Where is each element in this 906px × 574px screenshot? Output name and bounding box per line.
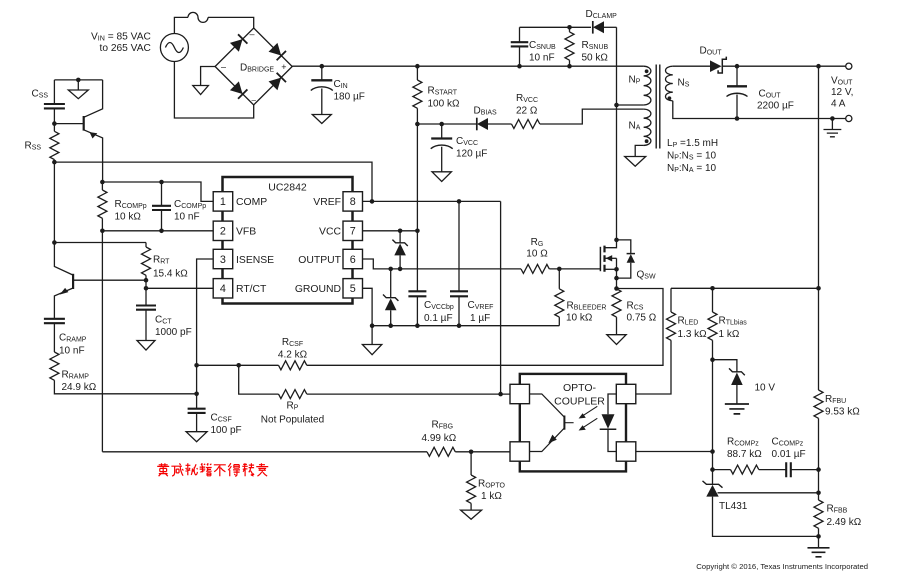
diode DBIAS (417, 123, 476, 125)
svg-text:VCC: VCC (319, 227, 341, 238)
svg-text:UC2842: UC2842 (268, 182, 307, 194)
bridge diode bottom-right (268, 73, 286, 91)
transistor Q2 (ramp NPN) (54, 243, 73, 276)
wire ISENSE vertical (197, 259, 214, 409)
resistor RSTART (416, 66, 418, 80)
body diode QSW (617, 240, 631, 254)
AC source V1 (160, 34, 188, 62)
diode DCLAMP (593, 21, 604, 34)
bridge diode top-left (230, 34, 248, 52)
node LED bus (816, 286, 821, 291)
svg-text:1000 pF: 1000 pF (155, 327, 192, 338)
wire VREF pin8 (362, 200, 500, 202)
node CVCCbp bottom (415, 323, 420, 328)
svg-text:50 kΩ: 50 kΩ (582, 53, 609, 64)
svg-text:–: – (221, 62, 226, 72)
wire RP to opto (307, 393, 510, 395)
node VCC RSTART junction (415, 229, 420, 234)
node RT/CT (144, 286, 149, 291)
wire VFB net (102, 230, 213, 232)
opto-coupler U2 box (520, 374, 626, 472)
capacitor CCT (145, 288, 147, 305)
svg-text:1: 1 (220, 196, 226, 208)
resistor RCS (612, 289, 621, 317)
resistor RSS (53, 124, 55, 132)
node zener2 bottom (388, 323, 393, 328)
wire TL431 ref (718, 492, 819, 494)
node RCOMPp top (100, 180, 105, 185)
wire ground bus (372, 325, 559, 327)
wire VOUT rail down (818, 66, 820, 390)
svg-text:–: – (251, 96, 256, 105)
svg-text:2: 2 (220, 226, 226, 238)
node CIN junction (320, 64, 325, 69)
wire VCC pin7 (362, 230, 417, 232)
node source stub (614, 267, 619, 272)
resistor RRT (145, 243, 147, 248)
ground (pin5) (362, 345, 381, 355)
resistor RCOMPz (713, 469, 731, 471)
node NP bottom junction (614, 103, 619, 108)
capacitor CCOMPp (161, 182, 163, 206)
pin 8 square (343, 192, 363, 211)
resistor RP (not populated) (279, 390, 307, 399)
svg-text:10 kΩ: 10 kΩ (115, 212, 142, 223)
resistor RFBU (814, 390, 823, 418)
wire COMP net (102, 182, 213, 201)
node RRAMP junction (194, 392, 199, 397)
node VREF pullup (498, 392, 503, 397)
svg-text:COMP: COMP (236, 197, 267, 208)
node ROPTO top (469, 450, 474, 455)
wire GROUND pin5 (362, 288, 372, 344)
node source RCS (614, 286, 619, 291)
node zener1 bottom (398, 267, 403, 272)
ground (RCS) (607, 335, 626, 345)
node RCOMPz left (710, 467, 715, 472)
svg-text:Copyright © 2016, Texas Instru: Copyright © 2016, Texas Instruments Inco… (696, 562, 868, 571)
svg-text:1 kΩ: 1 kΩ (719, 329, 740, 340)
svg-text:0.75 Ω: 0.75 Ω (627, 313, 657, 324)
resistor RTLbias (712, 288, 714, 312)
svg-text:3: 3 (220, 254, 226, 266)
wire TL431 cathode (712, 360, 714, 485)
wire RVCC to NA (540, 109, 644, 124)
node RP branch (236, 363, 241, 368)
wire pin4 (146, 287, 213, 289)
svg-text:0.01 µF: 0.01 µF (772, 449, 806, 460)
svg-text:2200 µF: 2200 µF (757, 101, 794, 112)
wire VREF down to opto (500, 201, 502, 394)
wire RP branch (239, 365, 279, 394)
wire RSTART to VCC (416, 124, 418, 231)
opto pin bottom-right (616, 442, 636, 461)
svg-text:7: 7 (350, 226, 356, 238)
wire source to RCSF (307, 289, 663, 366)
resistor RFBG (427, 447, 455, 456)
opto pin bottom-left (510, 442, 530, 461)
wire NS to DOUT (673, 65, 710, 67)
capacitor CCOMPz (759, 469, 786, 471)
wire NA bottom to ground (635, 145, 643, 156)
node CVREF top (457, 199, 462, 204)
TL431 U3 (703, 481, 723, 488)
node body return (614, 276, 619, 281)
wire main bus (292, 65, 643, 67)
svg-text:4 A: 4 A (831, 99, 846, 110)
wire CSS top (54, 79, 102, 81)
pin 3 square (213, 249, 233, 268)
svg-text:GROUND: GROUND (295, 284, 341, 295)
ground (CCT) (137, 341, 155, 351)
resistor RCSF (279, 361, 307, 370)
wire OUTPUT pin6 (362, 259, 521, 269)
svg-text:10 kΩ: 10 kΩ (566, 313, 593, 324)
wire VFB branch down (101, 231, 103, 452)
transistor QSW mosfet (603, 246, 605, 272)
svg-text:9.53 kΩ: 9.53 kΩ (825, 407, 860, 418)
node CCOMPp top (159, 180, 164, 185)
node RRT bottom (144, 278, 149, 283)
node zener2 top (388, 267, 393, 272)
svg-text:OUTPUT: OUTPUT (298, 255, 341, 266)
resistor RLED (670, 288, 672, 312)
pin 2 square (213, 221, 233, 240)
pin 1 square (213, 192, 233, 211)
resistor RG (521, 264, 549, 273)
node TL431 ref junction (816, 491, 821, 496)
svg-text:10 nF: 10 nF (174, 212, 200, 223)
wire RG to gate (549, 268, 600, 270)
capacitor CVCCbp (416, 231, 418, 291)
svg-text:10 nF: 10 nF (529, 53, 555, 64)
svg-text:1.3 kΩ: 1.3 kΩ (678, 329, 708, 340)
pin 5 square (343, 279, 363, 298)
svg-text:–: – (249, 29, 254, 39)
wire secondary return (673, 101, 846, 119)
node zener branch (710, 357, 715, 362)
svg-text:100 kΩ: 100 kΩ (428, 99, 460, 110)
svg-text:88.7 kΩ: 88.7 kΩ (727, 449, 762, 460)
diode DOUT schottky (710, 60, 722, 72)
node drain (614, 238, 619, 243)
ground (output) (831, 119, 833, 130)
node pin5 gnd (370, 323, 375, 328)
svg-text:12 V,: 12 V, (831, 87, 853, 98)
opto light arrows (582, 406, 598, 428)
wire AC bottom loop (174, 62, 253, 119)
svg-text:2.49 kΩ: 2.49 kΩ (827, 517, 862, 528)
node VOUT line tap (816, 64, 821, 69)
resistor RRAMP (50, 352, 59, 380)
op-amp U1 UC2842 box (223, 177, 353, 304)
ground (CVCC) (432, 172, 451, 182)
svg-text:TL431: TL431 (719, 501, 748, 512)
node RCOMPp bottom (100, 229, 105, 234)
ground (ROPTO) (461, 510, 482, 519)
node pin8 corner (370, 199, 375, 204)
svg-text:OPTO-: OPTO- (563, 382, 597, 394)
node opto TL431 (710, 449, 715, 454)
capacitor CVREF (458, 201, 460, 291)
node CCOMPp bottom (159, 229, 164, 234)
transistor Q1 (soft start PNP) (54, 123, 83, 125)
svg-text:5: 5 (350, 283, 356, 295)
svg-text:22 Ω: 22 Ω (516, 106, 538, 117)
bridge diode top-right (268, 43, 286, 61)
svg-text:10 Ω: 10 Ω (526, 249, 548, 260)
svg-text:15.4 kΩ: 15.4 kΩ (153, 269, 188, 280)
transformer core (656, 65, 660, 149)
zener D2 (gate clamp) (390, 269, 392, 298)
svg-text:COUPLER: COUPLER (554, 396, 605, 408)
capacitor COUT (736, 66, 738, 86)
svg-text:8: 8 (350, 196, 356, 208)
svg-text:0.1 µF: 0.1 µF (424, 313, 453, 324)
wire TL431 anode (713, 497, 819, 537)
ground (NA) (625, 157, 646, 167)
node CSS bottom (52, 121, 57, 126)
capacitor CIN (321, 66, 323, 80)
svg-text:180 µF: 180 µF (334, 92, 365, 103)
svg-text:120 µF: 120 µF (456, 149, 487, 160)
resistor RCOMPp (101, 182, 103, 190)
resistor RFBB (814, 500, 823, 528)
terminal VOUT+ (846, 63, 852, 69)
node CCOMPz right (816, 467, 821, 472)
opto LED (608, 394, 616, 414)
svg-text:4.2 kΩ: 4.2 kΩ (278, 350, 308, 361)
svg-text:10 nF: 10 nF (59, 346, 85, 357)
wire LED bus (671, 287, 819, 289)
node CSS top arrow (76, 78, 81, 83)
svg-text:+: + (281, 62, 286, 72)
wire Q2 base to RRT (73, 279, 146, 281)
svg-text:24.9 kΩ: 24.9 kΩ (62, 382, 97, 393)
svg-text:6: 6 (350, 254, 356, 266)
wire VFB to RFBG (102, 451, 427, 453)
wire bridge to ground (201, 67, 216, 86)
wire soft start to VREF (54, 162, 372, 201)
capacitor CCSF (188, 409, 206, 413)
wire opto to TL431 (636, 451, 713, 453)
svg-text:VFB: VFB (236, 227, 256, 238)
wire RFBG to opto (455, 451, 510, 453)
resistor RBLEEDER (558, 269, 560, 289)
capacitor CSNUB (519, 46, 521, 66)
svg-text:4.99 kΩ: 4.99 kΩ (422, 433, 457, 444)
svg-text:to 265 VAC: to 265 VAC (100, 43, 151, 54)
node RSTART junction (415, 64, 420, 69)
node DBIAS left junction (415, 122, 420, 127)
node zener1 top (398, 229, 403, 234)
capacitor CVCC (439, 122, 444, 127)
pin 6 square (343, 249, 363, 268)
opto transistor (563, 416, 565, 430)
ground (RFBB) (807, 548, 829, 557)
ground (CIN) (312, 115, 331, 124)
svg-text:RT/CT: RT/CT (236, 284, 267, 295)
opto pin top-left (510, 384, 530, 403)
node COUT bottom (735, 116, 740, 121)
node CVREF bottom (457, 323, 462, 328)
capacitor CRAMP (44, 319, 65, 323)
terminal VOUT- (846, 115, 852, 121)
transformer NP winding (644, 66, 651, 105)
node RTLbias top (710, 286, 715, 291)
svg-text:1 kΩ: 1 kΩ (481, 491, 502, 502)
node CSNUB junction (517, 64, 522, 69)
ground (zener) (725, 404, 749, 414)
svg-text:10 V: 10 V (755, 383, 776, 394)
node RSS bottom (52, 160, 57, 165)
zener D3 10V (713, 360, 737, 372)
resistor RSNUB (569, 27, 571, 32)
svg-text:VREF: VREF (313, 197, 341, 208)
wire AC top with fuse (174, 17, 188, 33)
wire RSS junction down (53, 162, 55, 242)
zener D1 (VCC clamp) (399, 231, 401, 243)
resistor RVCC (488, 123, 512, 125)
node RFBB bottom (816, 534, 821, 539)
ground (CCSF) (186, 432, 207, 442)
svg-text:4: 4 (220, 283, 226, 295)
svg-text:1 µF: 1 µF (470, 313, 490, 324)
svg-text:Not Populated: Not Populated (261, 415, 324, 426)
node RBLEEDER top (557, 267, 562, 272)
svg-text:ISENSE: ISENSE (236, 255, 274, 266)
pin 4 square (213, 279, 233, 298)
wire DOUT to VOUT terminal (722, 65, 845, 67)
node RSNUB top (567, 25, 572, 30)
wire RCSF to ISENSE (197, 364, 279, 366)
node output ground tap (830, 116, 835, 121)
watermark text (157, 463, 169, 476)
resistor ROPTO (470, 452, 472, 475)
capacitor CSS (53, 80, 55, 104)
wire to RRT top (54, 242, 146, 244)
node RSS chain junction (52, 240, 57, 245)
wire snubber top (520, 26, 592, 28)
bridge diode bottom-left (230, 81, 248, 99)
node ISENSE junction (194, 363, 199, 368)
ground (bridge) (193, 86, 209, 95)
svg-text:100 pF: 100 pF (211, 425, 242, 436)
node COUT top (735, 64, 740, 69)
transformer NS winding (666, 66, 673, 101)
diode bridge DBRIDGE outline (215, 28, 292, 105)
wire DCLAMP down to drain (616, 27, 618, 240)
transformer NA winding (644, 109, 651, 145)
pin 7 square (343, 221, 363, 240)
opto pin top-right (616, 384, 636, 403)
ground arrow (CSS top) (68, 90, 88, 99)
